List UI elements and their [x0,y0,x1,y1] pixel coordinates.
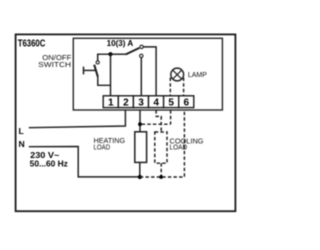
terminal block: box 1 [103,96,118,108]
node J4 cooling bottom junction [159,175,163,179]
wire: cooling resistor bottom drop (dashed) [160,163,162,177]
svg-text:N: N [19,139,25,149]
wire: terminal 4 stub and jog to cooling feed (dashed) [156,110,161,132]
svg-text:6: 6 [184,98,190,109]
wire: heating resistor bottom to N rail [139,162,141,177]
terminal block: box 2 [118,96,133,108]
svg-text:4: 4 [153,98,159,109]
svg-text:T6360C: T6360C [18,38,46,49]
wire: terminal 5 drop (dashed) [170,110,172,124]
svg-text:5: 5 [168,98,174,109]
svg-text:3: 3 [138,98,144,109]
wire: lamp right lead (dashed) to terminal 6 [183,78,185,96]
terminal block: box 5 [164,96,179,108]
wire: main vertical to terminal 1 [110,54,112,96]
wire: node to ON/OFF contact [98,54,111,61]
svg-text:10(3) A: 10(3) A [107,39,134,48]
wire: blade bottom down [98,77,111,86]
cooling load resistor R2 (dashed) [155,132,167,163]
wire: dashed bottom rail to terminal 6 [140,110,185,177]
wire: lower contact to terminal 3 [140,58,142,96]
terminal block: box 3 [133,96,148,108]
heating load resistor R1 [135,132,147,163]
thermostat device box U1 (T6360C) [73,38,222,110]
svg-text:SWITCH: SWITCH [38,61,71,69]
thermostat switch arm [111,53,127,55]
wire: dashed rail from J2 to terminal 5 drop [142,123,171,125]
svg-text:LOAD: LOAD [94,143,111,151]
outer enclosure frame [16,34,236,211]
svg-text:50...60 Hz: 50...60 Hz [30,158,68,168]
wire: terminal 3 down to heating resistor [139,110,141,132]
switch SW1 handle bar [84,69,96,71]
contact circle lower (to terminal 3) [140,54,143,57]
lamp DS1 [171,68,184,81]
wire: upper contact to terminal 4 [144,47,157,96]
node J1 (common) [108,52,112,56]
switch SW1 handle cap [83,67,85,75]
switch SW1 ON/OFF: contact circle [96,61,99,64]
svg-text:2: 2 [123,98,129,109]
node J2 on heating wire [138,122,142,126]
terminal block: box 4 [149,96,164,108]
wire: L rail to terminal 2 [29,110,126,128]
svg-text:1: 1 [108,98,114,109]
node J3 bottom junction [138,175,142,179]
svg-text:L: L [19,126,24,136]
contact circle upper (to terminal 4) [140,45,143,48]
switch SW1 blade [94,65,98,77]
svg-text:LAMP: LAMP [188,70,207,79]
wire: N rail down and right [29,147,140,177]
terminal block: box 6 [179,96,194,108]
wire: lamp left lead (dashed) to terminal 5 [169,78,171,96]
